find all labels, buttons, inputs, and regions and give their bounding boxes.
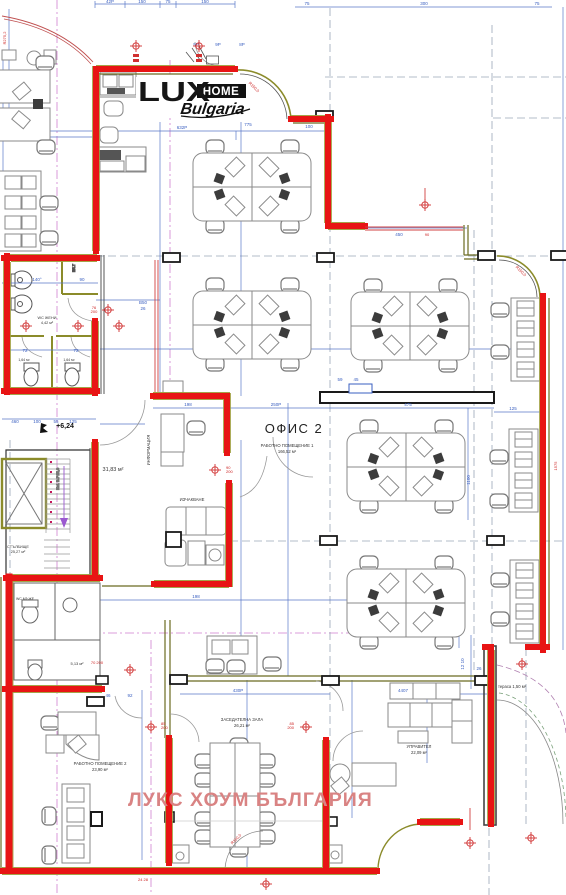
- svg-text:РАБОТНО ПОМЕЩЕНИЕ 1: РАБОТНО ПОМЕЩЕНИЕ 1: [261, 443, 315, 448]
- svg-text:775: 775: [244, 122, 252, 127]
- svg-text:140°: 140°: [32, 277, 42, 282]
- svg-text:55: 55: [53, 419, 59, 424]
- svg-text:300: 300: [420, 1, 428, 6]
- svg-text:90: 90: [425, 232, 430, 237]
- svg-text:450: 450: [395, 232, 403, 237]
- svg-text:200: 200: [91, 309, 98, 314]
- svg-text:46: 46: [105, 693, 111, 698]
- svg-text:тераса 1,50 м²: тераса 1,50 м²: [498, 684, 527, 689]
- svg-text:125: 125: [69, 419, 77, 424]
- svg-text:100: 100: [305, 124, 313, 129]
- svg-text:200: 200: [226, 469, 233, 474]
- svg-text:ЛУКС ХОУМ БЪЛГАРИЯ: ЛУКС ХОУМ БЪЛГАРИЯ: [128, 789, 373, 811]
- svg-text:ЗАСЕДАТЕЛНА ЗАЛА: ЗАСЕДАТЕЛНА ЗАЛА: [221, 717, 264, 722]
- svg-text:460: 460: [11, 419, 19, 424]
- svg-text:198: 198: [192, 594, 200, 599]
- svg-text:72: 72: [22, 348, 28, 353]
- svg-text:632P: 632P: [177, 125, 188, 130]
- svg-text:125: 125: [509, 406, 517, 411]
- svg-text:СТЪЛБИЩЕ: СТЪЛБИЩЕ: [7, 545, 29, 549]
- svg-text:42P: 42P: [106, 0, 114, 4]
- svg-text:26,21 м²: 26,21 м²: [234, 723, 251, 728]
- svg-text:1100: 1100: [466, 475, 471, 485]
- svg-text:59: 59: [337, 377, 343, 382]
- svg-text:26: 26: [476, 666, 482, 671]
- svg-text:R275,2: R275,2: [2, 31, 7, 45]
- svg-text:22,09 м²: 22,09 м²: [411, 750, 428, 755]
- svg-text:4,42 м²: 4,42 м²: [41, 321, 54, 325]
- svg-text:9P: 9P: [215, 42, 221, 47]
- svg-text:УПРАВИТЕЛ: УПРАВИТЕЛ: [407, 744, 432, 749]
- svg-text:72: 72: [73, 348, 79, 353]
- svg-text:45: 45: [353, 377, 359, 382]
- svg-text:1575: 1575: [553, 461, 558, 471]
- svg-text:200: 200: [287, 725, 294, 730]
- svg-text:Bulgaria: Bulgaria: [179, 100, 246, 118]
- svg-text:166,52 м²: 166,52 м²: [278, 449, 297, 454]
- svg-text:1,64 м²: 1,64 м²: [63, 358, 75, 362]
- svg-text:ИНФОРМАЦИЯ: ИНФОРМАЦИЯ: [146, 435, 151, 466]
- svg-text:75: 75: [304, 1, 310, 6]
- svg-text:150: 150: [201, 0, 209, 4]
- svg-text:В50: В50: [139, 300, 148, 305]
- svg-text:8P: 8P: [239, 42, 245, 47]
- svg-text:1,64 м²: 1,64 м²: [18, 358, 30, 362]
- svg-text:+6,24: +6,24: [56, 423, 74, 430]
- svg-text:РАБОТНО ПОМЕЩЕНИЕ 2: РАБОТНО ПОМЕЩЕНИЕ 2: [74, 761, 128, 766]
- svg-text:70 200: 70 200: [91, 660, 104, 665]
- svg-text:ОФИС 2: ОФИС 2: [265, 421, 324, 436]
- svg-text:475: 475: [404, 402, 412, 407]
- svg-text:5,13 м²: 5,13 м²: [71, 661, 85, 666]
- svg-text:26: 26: [140, 306, 146, 311]
- svg-text:200: 200: [161, 725, 168, 730]
- svg-text:WC ЖЕНИ: WC ЖЕНИ: [38, 316, 57, 320]
- svg-text:100: 100: [33, 419, 41, 424]
- svg-text:90: 90: [79, 277, 85, 282]
- svg-text:ИЗЧАКВАНЕ: ИЗЧАКВАНЕ: [180, 497, 205, 502]
- svg-text:250P: 250P: [271, 402, 282, 407]
- svg-text:WC МЪЖЕ: WC МЪЖЕ: [16, 597, 35, 601]
- svg-text:92: 92: [127, 693, 133, 698]
- svg-text:23,90 м²: 23,90 м²: [92, 767, 109, 772]
- svg-text:75: 75: [534, 1, 540, 6]
- svg-text:25,27 м²: 25,27 м²: [11, 550, 26, 554]
- svg-text:31,83 м²: 31,83 м²: [103, 467, 124, 473]
- svg-text:4407: 4407: [398, 688, 409, 693]
- svg-text:198: 198: [184, 402, 192, 407]
- svg-text:ЕЛ.Т: ЕЛ.Т: [72, 263, 76, 272]
- svg-text:150: 150: [138, 0, 146, 4]
- svg-text:24 28: 24 28: [138, 877, 149, 882]
- svg-text:12 10: 12 10: [460, 658, 465, 670]
- svg-text:Кн1 В.Р25,0: Кн1 В.Р25,0: [55, 467, 60, 490]
- svg-text:430P: 430P: [233, 688, 244, 693]
- svg-text:75: 75: [165, 0, 171, 4]
